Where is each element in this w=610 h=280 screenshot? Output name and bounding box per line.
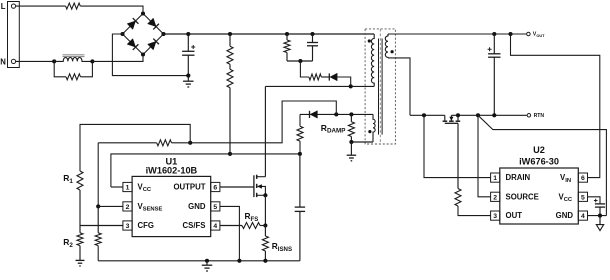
SR MOSFET Q2 channel pads [443, 120, 448, 122]
junction: VSENSE pin tap [96, 204, 100, 208]
junction: RTN at source stub [456, 113, 460, 117]
U2 pin 4 box [578, 211, 587, 220]
junction: Q1 source-body tie [263, 193, 267, 197]
snubber capacitor [312, 34, 314, 43]
svg-text:L: L [1, 2, 6, 11]
wire: CS/FS pin wire [220, 225, 242, 227]
resistor aux-to-VCC [299, 114, 301, 126]
U1 pin 4 box [211, 221, 220, 230]
junction: GND at rail [237, 259, 241, 263]
transformer shield dashed line [379, 29, 381, 144]
svg-text:N: N [0, 57, 6, 66]
aux phase dot [368, 130, 371, 133]
wire: drain line [265, 85, 374, 87]
resistor RISNS [264, 226, 266, 237]
svg-text:5: 5 [581, 194, 585, 201]
IC U1 box [132, 176, 211, 236]
wire: VCC line [111, 154, 300, 187]
secondary phase dot [391, 50, 394, 53]
wire: secondary bottom to RTN line [388, 58, 410, 115]
earth ground on rail [206, 261, 208, 265]
svg-text:SOURCE: SOURCE [506, 192, 539, 201]
U2 pin 1 box [491, 173, 500, 182]
junction: aux node at RDAMP [349, 112, 353, 116]
SR MOSFET Q2 gate bar [445, 122, 458, 124]
clamp resistor [309, 74, 321, 80]
junction: aux node at VSENSE tap [334, 112, 338, 116]
bridge diode D3 (left-bottom edge, anode left vertex) [127, 39, 135, 47]
resistor across choke [54, 61, 66, 76]
junction: VCC at aux rectifier / cap [298, 152, 302, 156]
U1 pin 3 box [123, 221, 132, 230]
terminal RTN [527, 114, 531, 118]
svg-text:iW1602-10B: iW1602-10B [146, 166, 198, 176]
SR MOSFET Q2 source stub [457, 115, 459, 120]
junction: RTN at output cap [492, 113, 496, 117]
wire: R1 top route [80, 124, 190, 171]
wire: GND pin wire [588, 215, 607, 217]
bridge diode D1 (left-top edge, anode left vertex) [127, 21, 135, 29]
wire: RFS to CS node [260, 225, 265, 227]
junction: CS node [263, 223, 267, 227]
bulk capacitor C1 (+) [187, 34, 189, 51]
primary phase dot [368, 39, 371, 42]
input connector J1 [8, 2, 20, 68]
aux rectifier diode D6 (points left) [309, 111, 311, 118]
U1 pin 2 box [123, 202, 132, 211]
svg-text:iW676-30: iW676-30 [519, 156, 559, 166]
startup resistor Rst1 [229, 34, 231, 46]
wire: Q1 drain riser [264, 86, 266, 176]
wire: DRAIN pin route [424, 115, 491, 177]
wire: OUT pin route [458, 206, 491, 216]
junction: VCC line at startup resistors [228, 152, 232, 156]
resistor RFS [242, 223, 260, 229]
MOSFET Q1 source stub [257, 194, 266, 196]
wire: clamp diode to drain node [336, 77, 350, 86]
svg-text:6: 6 [581, 175, 585, 182]
wire: aux bottom return [351, 141, 373, 143]
transformer core lines [378, 39, 380, 135]
wire: aux top node line [300, 113, 373, 115]
earth ground at aux [350, 142, 352, 155]
wire: startup resistors to VCC line [229, 88, 231, 154]
svg-text:GND: GND [556, 211, 574, 220]
IC U2 box [500, 168, 579, 224]
junction: RTN at SOURCE/GND tap [476, 113, 480, 117]
wire: Q1 source to CS node [264, 195, 266, 225]
wire: GND route from RTN [478, 115, 606, 215]
U2 pin 5 box [578, 192, 587, 201]
wire: R1-R2 junction to CFG [79, 190, 81, 233]
junction: RISNS at ground rail [263, 259, 267, 263]
junction: snubber bottom [298, 59, 302, 63]
wire: bottom ground rail [98, 260, 300, 262]
wire: clamp R to D [321, 76, 329, 78]
resistor VSENSE lower [97, 206, 99, 232]
terminal L [11, 4, 15, 8]
earth ground under R2 [79, 246, 81, 261]
junction: drain node at clamp [349, 84, 353, 88]
MOSFET Q1 gate bar [253, 175, 255, 197]
svg-text:CFG: CFG [138, 221, 154, 230]
junction: bridge top vertex [141, 11, 145, 15]
svg-text:3: 3 [493, 213, 497, 220]
junction: DC- at C1 [186, 74, 190, 78]
svg-text:DRAIN: DRAIN [506, 173, 531, 182]
svg-text:2: 2 [493, 194, 497, 201]
wire: gate resistor to gate [457, 123, 459, 188]
wire: U1 GND pin to rail [220, 206, 240, 260]
junction: DC+ rail at snubber R [285, 32, 289, 36]
svg-text:1: 1 [126, 185, 130, 192]
auxiliary winding [373, 114, 375, 142]
junction: U2 GND node [598, 214, 602, 218]
capacitor U2 VCC (+) [595, 203, 605, 205]
fuse F1 (resistor symbol) [66, 3, 81, 9]
wire: VOUT rail [388, 33, 526, 35]
svg-text:4: 4 [581, 213, 585, 220]
svg-text:GND: GND [188, 202, 206, 211]
svg-text:1: 1 [493, 175, 497, 182]
junction: N at choke right [90, 59, 94, 63]
MOSFET Q1 body arrow [260, 186, 266, 195]
junction: VOUT at output cap [492, 32, 496, 36]
SR MOSFET Q2 drain stub [444, 115, 446, 120]
svg-text:5: 5 [213, 204, 217, 211]
junction: sense node split [188, 141, 192, 145]
svg-text:U2: U2 [533, 145, 545, 155]
terminal VOUT [527, 32, 531, 36]
svg-text:3: 3 [126, 223, 130, 230]
bridge diode D2 (top-right edge, anode top vertex) [148, 18, 156, 26]
capacitor VCC bypass [299, 154, 301, 207]
transformer T1 dashed boundary [365, 29, 395, 144]
resistor R2 [77, 233, 83, 246]
wire: N line choke to bridge bottom [92, 56, 143, 61]
svg-text:4: 4 [213, 223, 217, 230]
resistor RDAMP [350, 114, 352, 121]
junction: DC+ rail at C1 [186, 32, 190, 36]
svg-text:VOUT: VOUT [533, 32, 545, 38]
wire: snubber bottom join [287, 60, 313, 62]
wire: N line terminal to choke [16, 60, 55, 62]
bridge rectifier BR1 diamond [123, 14, 164, 55]
svg-text:OUTPUT: OUTPUT [173, 183, 205, 192]
SR MOSFET Q2 body stub with arrow [450, 115, 452, 120]
bridge diode D4 (bottom-right edge, anode bottom vertex) [148, 41, 156, 49]
wire: SOURCE pin route [478, 115, 491, 197]
svg-text:2: 2 [126, 204, 130, 211]
junction: bridge left vertex [120, 32, 124, 36]
junction: DC+ rail at snubber C [310, 32, 314, 36]
signal ground U2 (open triangle) [599, 216, 601, 225]
wire: VCC pin to cap [588, 197, 601, 204]
wire: OUTPUT to gate [220, 186, 254, 188]
U2 pin 6 box [578, 173, 587, 182]
wire: primary DC- from left vertex [112, 34, 188, 76]
wire: L line from terminal to fuse [16, 5, 66, 7]
MOSFET Q1 channel segments [256, 175, 258, 179]
U1 pin 1 box [123, 182, 132, 191]
svg-text:6: 6 [213, 185, 217, 192]
wire: clamp branch down [300, 61, 309, 77]
junction: RTN at U2 DRAIN tap [422, 113, 426, 117]
resistor R1 [77, 171, 83, 190]
wire: RTN line left segment [410, 114, 445, 116]
junction: DC+ rail at startup resistors [228, 32, 232, 36]
wire: RTN line right segment [458, 114, 527, 116]
junction: ground rail at earth [205, 259, 209, 263]
earth ground at bulk cap [187, 76, 189, 82]
U2 pin 3 box [491, 211, 500, 220]
startup resistor Rst2 [229, 64, 231, 69]
choke core lines [63, 54, 85, 56]
wire: VSENSE pin wire [98, 205, 123, 207]
output capacitor C2 (+) [493, 34, 495, 54]
snubber resistor [286, 34, 288, 40]
U2 pin 2 box [491, 192, 500, 201]
primary winding [371, 34, 374, 86]
gate resistor (SR FET) [455, 189, 461, 207]
terminal N [11, 59, 15, 63]
svg-text:RTN: RTN [534, 113, 545, 119]
wire: RTN between body and source stubs [451, 114, 458, 116]
junction: N at choke left [52, 59, 56, 63]
wire: VSENSE column [97, 143, 99, 207]
U1 pin 6 box [211, 182, 220, 191]
wire: VSENSE lower resistor to ground rail [97, 246, 99, 261]
junction: aux bottom [349, 140, 353, 144]
clamp diode D5 (points left) [328, 73, 330, 80]
U1 pin 5 box [211, 202, 220, 211]
wire: VIN route [511, 34, 600, 178]
junction: bridge bottom vertex [141, 52, 145, 56]
svg-text:CS/FS: CS/FS [183, 221, 206, 230]
secondary winding [385, 34, 388, 58]
wire: L line fuse to bridge top [80, 6, 143, 12]
common-mode choke L1 winding [54, 57, 92, 61]
wire: DC+ rail bridge to transformer [164, 33, 375, 35]
MOSFET Q1 drain stub [257, 176, 266, 178]
junction: bridge right vertex [161, 32, 165, 36]
resistor VSENSE series [172, 142, 191, 144]
svg-text:OUT: OUT [506, 211, 523, 220]
junction: VOUT at VIN tap [508, 32, 512, 36]
wire: VSENSE sense route [190, 101, 336, 143]
